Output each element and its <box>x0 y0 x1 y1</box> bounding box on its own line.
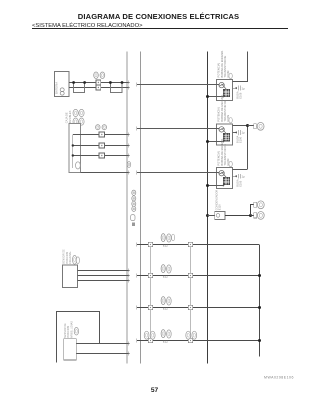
svg-text:E106: E106 <box>239 180 243 187</box>
svg-text:BATERIA: BATERIA <box>55 82 59 94</box>
svg-text:DIAGRAMA DE CONEXIONES ELÉCTRI: DIAGRAMA DE CONEXIONES ELÉCTRICAS <box>78 12 239 21</box>
svg-text:1μ: 1μ <box>242 174 245 178</box>
svg-text:1μ: 1μ <box>242 86 245 90</box>
svg-text:E106: E106 <box>239 136 243 143</box>
svg-text:E106: E106 <box>239 92 243 99</box>
svg-text:MWA0298E106: MWA0298E106 <box>264 376 294 380</box>
svg-text:FUSIBLES: FUSIBLES <box>68 110 72 123</box>
svg-text:ARBOL LEVAS: ARBOL LEVAS <box>70 321 73 338</box>
svg-text:E12: E12 <box>163 274 168 278</box>
svg-text:E110: E110 <box>218 204 222 210</box>
svg-text:E12: E12 <box>163 306 168 310</box>
svg-text:57: 57 <box>151 387 159 394</box>
svg-text:E12: E12 <box>163 243 168 247</box>
svg-text:1μ: 1μ <box>242 131 245 135</box>
svg-text:E12: E12 <box>163 339 168 343</box>
svg-text:CIGUENAL: CIGUENAL <box>69 251 72 264</box>
svg-text:<SISTEMA ELÉCTRICO RELACIONADO: <SISTEMA ELÉCTRICO RELACIONADO> <box>32 22 143 29</box>
